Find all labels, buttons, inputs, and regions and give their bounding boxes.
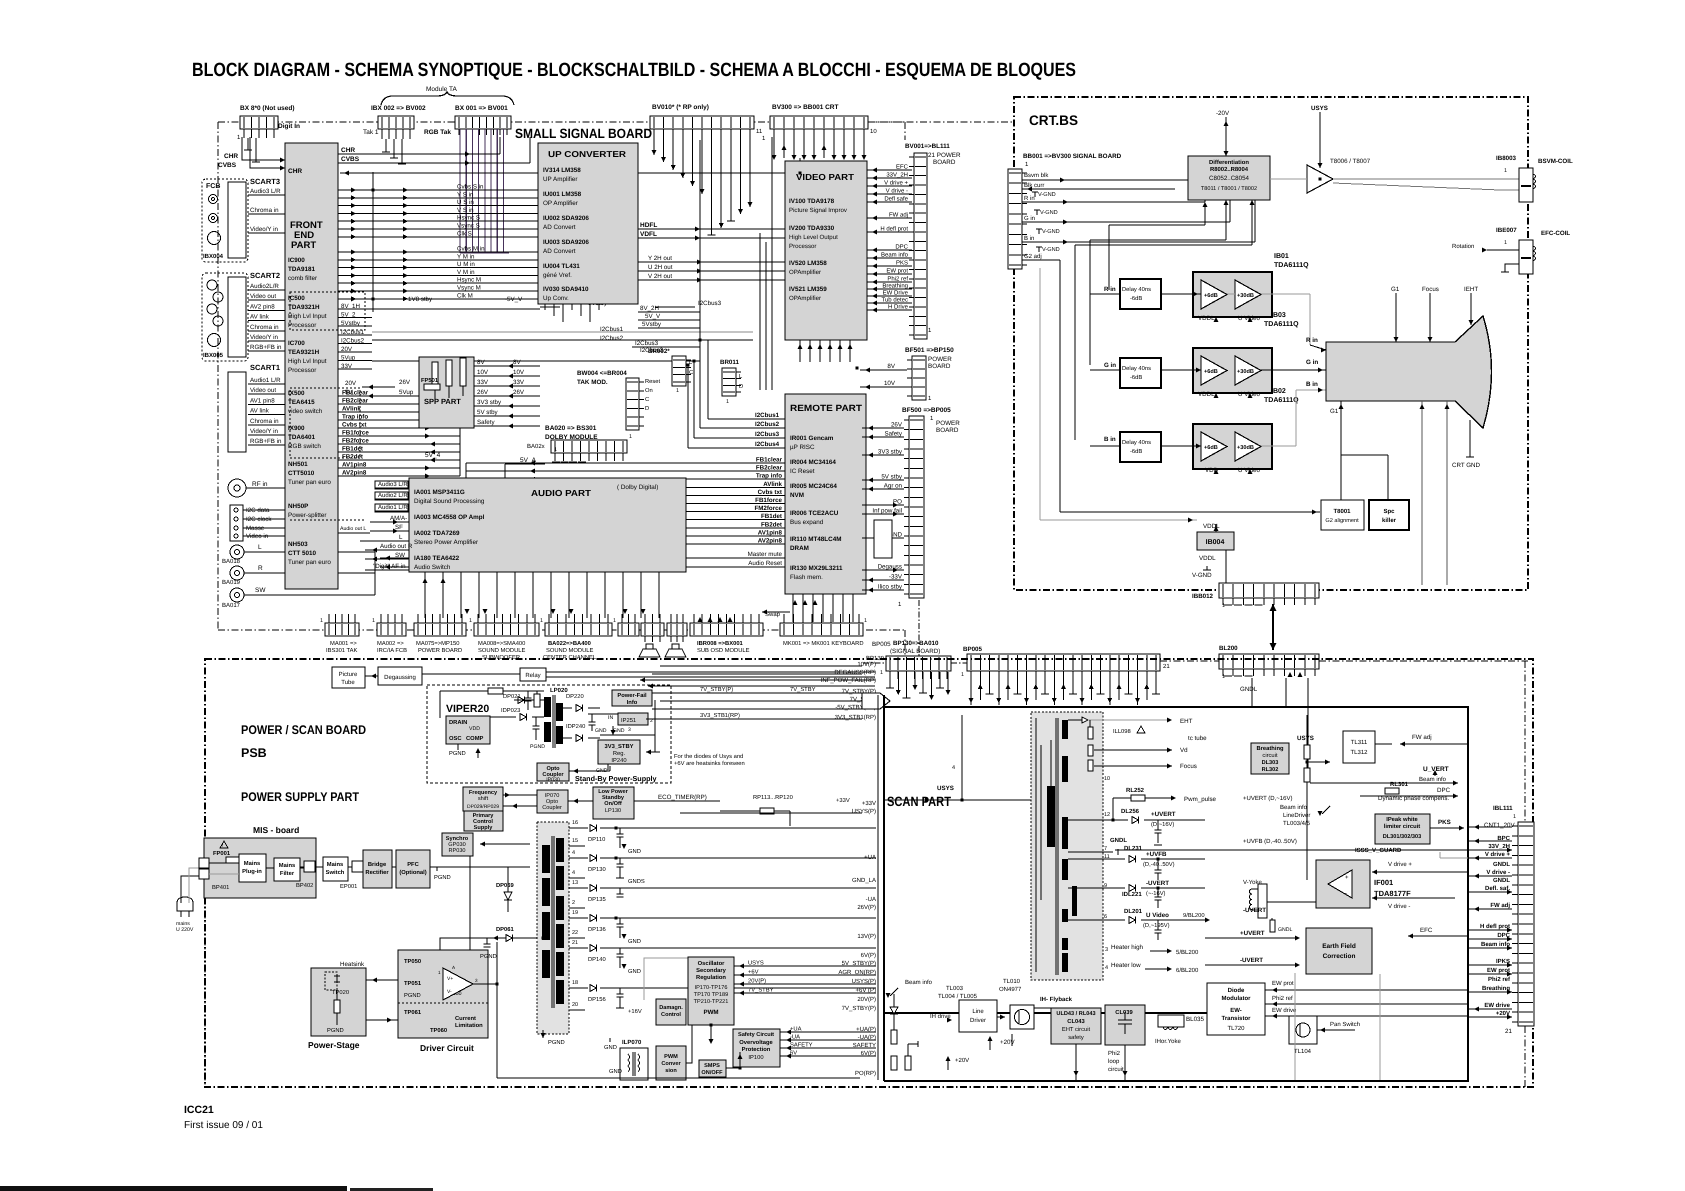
block Power-Stage xyxy=(308,961,366,1050)
svg-text:TAK MOD.: TAK MOD. xyxy=(577,379,608,386)
svg-text:TL311: TL311 xyxy=(1351,739,1368,746)
svg-text:Trap info: Trap info xyxy=(756,473,782,480)
svg-text:7V_STBY(P): 7V_STBY(P) xyxy=(700,686,733,693)
block Driver Circuit xyxy=(398,950,488,1053)
svg-text:Processor: Processor xyxy=(789,243,816,250)
svg-text:DL201: DL201 xyxy=(1124,908,1143,915)
wire V-GND under IB004 xyxy=(1192,550,1226,585)
svg-text:Heater low: Heater low xyxy=(1111,962,1141,969)
svg-text:16: 16 xyxy=(572,820,578,826)
label for the diodes note xyxy=(674,753,745,767)
transistor TL104 pan switch xyxy=(1289,1016,1360,1055)
svg-text:DP130: DP130 xyxy=(588,866,606,873)
block SMPS ON/OFF xyxy=(699,1060,726,1077)
svg-text:26V: 26V xyxy=(891,422,903,429)
IC UP CONVERTER xyxy=(538,143,638,304)
svg-text:ILP070: ILP070 xyxy=(622,1039,642,1046)
svg-text:shift: shift xyxy=(478,795,489,802)
wire vertical bus lines left of UP CONVERTER xyxy=(338,172,538,312)
svg-text:+UA: +UA xyxy=(864,854,876,861)
svg-text:1: 1 xyxy=(1222,674,1225,680)
svg-text:RGB switch: RGB switch xyxy=(288,443,321,450)
svg-text:AV1 pin8: AV1 pin8 xyxy=(250,397,275,404)
svg-text:FW adj: FW adj xyxy=(889,212,908,219)
connector MA001 => IBS301 TAK xyxy=(320,614,359,654)
svg-text:20V: 20V xyxy=(345,380,357,387)
svg-text:I2Cbus2: I2Cbus2 xyxy=(755,421,780,428)
svg-text:V-GND: V-GND xyxy=(1042,229,1060,235)
svg-text:DPC: DPC xyxy=(895,244,908,251)
connector IB8003 BSVM coil xyxy=(1496,155,1573,202)
svg-text:IBX 002 => BV002: IBX 002 => BV002 xyxy=(371,105,426,112)
svg-text:IV314 LM358: IV314 LM358 xyxy=(543,167,581,174)
svg-text:CRT GND: CRT GND xyxy=(1452,462,1480,469)
svg-text:TDA6401: TDA6401 xyxy=(288,434,315,441)
svg-text:8V_2H: 8V_2H xyxy=(640,305,659,312)
svg-text:21: 21 xyxy=(1163,663,1170,670)
svg-text:SMALL SIGNAL BOARD: SMALL SIGNAL BOARD xyxy=(515,126,652,141)
svg-text:DPC: DPC xyxy=(1437,787,1451,794)
block Relay xyxy=(422,668,875,681)
svg-text:µP RISC: µP RISC xyxy=(790,444,815,451)
svg-text:EHT: EHT xyxy=(1180,718,1193,725)
wires standby rails to label column xyxy=(646,666,862,736)
svg-text:Clk S: Clk S xyxy=(457,230,472,237)
svg-text:PO(RP): PO(RP) xyxy=(855,1070,876,1077)
svg-text:VDFL: VDFL xyxy=(640,231,657,238)
block EHT circuit safety xyxy=(1051,1008,1101,1044)
svg-text:Pwm_pulse: Pwm_pulse xyxy=(1184,796,1217,803)
svg-text:SCART2: SCART2 xyxy=(250,271,280,280)
svg-text:RGB Tak: RGB Tak xyxy=(424,129,451,136)
block delay B xyxy=(1090,432,1161,462)
svg-text:PSB: PSB xyxy=(241,746,267,760)
labels power outputs right column bottom xyxy=(838,800,876,1077)
connector reset/on xyxy=(626,378,661,440)
svg-text:+UA(P): +UA(P) xyxy=(856,1026,876,1033)
block TL311 TL312 xyxy=(1343,731,1468,763)
wire R in xyxy=(1022,163,1209,205)
svg-text:On: On xyxy=(645,387,653,394)
block Low Power Standby On/Off LP130 xyxy=(568,787,720,819)
svg-text:OPAmplifier: OPAmplifier xyxy=(789,269,821,276)
svg-text:Limitation: Limitation xyxy=(455,1022,483,1029)
svg-text:Degauss: Degauss xyxy=(878,564,902,571)
svg-text:IBX005: IBX005 xyxy=(203,352,224,359)
label SCART1 rows xyxy=(248,377,288,445)
svg-text:(D,-40..50V): (D,-40..50V) xyxy=(1143,861,1175,868)
svg-text:Heatsink: Heatsink xyxy=(340,961,365,968)
wire EHT output xyxy=(1068,717,1207,782)
svg-text:V M in: V M in xyxy=(457,269,475,276)
svg-text:10V: 10V xyxy=(513,369,525,376)
op-amp IB03 TDA6111Q xyxy=(1193,348,1272,393)
svg-text:IBB012: IBB012 xyxy=(1192,593,1214,600)
svg-text:6V(P): 6V(P) xyxy=(861,952,876,959)
V yoke symbol xyxy=(1249,884,1316,933)
svg-text:CNT1_20V: CNT1_20V xyxy=(1484,822,1515,829)
speaker icon 2 xyxy=(665,644,686,657)
label BB001=>BV300 SIGNAL BOARD xyxy=(1023,153,1122,168)
svg-text:Chroma in: Chroma in xyxy=(250,207,279,214)
block IB004 xyxy=(1197,532,1234,550)
svg-text:6V(P): 6V(P) xyxy=(861,1050,876,1057)
svg-text:RL302: RL302 xyxy=(1262,767,1279,773)
svg-text:OSC: OSC xyxy=(449,735,462,742)
svg-text:Info: Info xyxy=(627,699,638,706)
op-amp IF001 TDA8177F xyxy=(1316,860,1411,908)
svg-text:Earth Field: Earth Field xyxy=(1322,943,1356,950)
svg-text:NH50P: NH50P xyxy=(288,503,308,510)
mains plug icon xyxy=(176,897,194,933)
label BW004 <=BR004 TAK MOD xyxy=(577,370,627,386)
wire USYS into scan part xyxy=(884,715,1035,803)
svg-text:PWM: PWM xyxy=(664,1054,678,1060)
svg-text:tc tube: tc tube xyxy=(1188,735,1207,742)
svg-text:1: 1 xyxy=(1504,240,1507,246)
svg-text:+6V: +6V xyxy=(748,969,759,976)
svg-text:CENTER CHANNEL: CENTER CHANNEL xyxy=(543,654,597,661)
svg-text:FB1det: FB1det xyxy=(342,446,363,453)
transformer LP070 xyxy=(620,1039,648,1080)
svg-text:I2Cbus2: I2Cbus2 xyxy=(600,335,624,342)
svg-text:1: 1 xyxy=(469,618,472,624)
svg-text:RL252: RL252 xyxy=(1126,787,1145,794)
svg-text:21: 21 xyxy=(572,940,578,946)
block Mains Filter xyxy=(274,858,313,889)
wire bus S signals to UP CONVERTER xyxy=(338,184,538,240)
svg-text:FP001: FP001 xyxy=(213,850,231,857)
svg-text:SUB OSD MODULE: SUB OSD MODULE xyxy=(697,647,750,654)
svg-text:IB004: IB004 xyxy=(1206,539,1225,546)
svg-text:-UA: -UA xyxy=(790,1035,800,1041)
connector BF500 => BP005 xyxy=(898,407,960,608)
svg-text:FW adj: FW adj xyxy=(1490,902,1510,909)
svg-text:BOARD: BOARD xyxy=(933,159,956,166)
svg-text:Processor: Processor xyxy=(288,322,316,329)
wire G in xyxy=(1022,168,1230,225)
svg-text:For the diodes of Usys and: For the diodes of Usys and xyxy=(674,753,743,760)
svg-text:Oscillator: Oscillator xyxy=(698,960,725,967)
op-amp IB01 TDA6111Q xyxy=(1193,253,1309,317)
wires driver to power stage xyxy=(366,938,543,1023)
svg-text:Vsync M: Vsync M xyxy=(457,285,481,292)
svg-text:TP020: TP020 xyxy=(332,989,349,996)
svg-text:Vsync S: Vsync S xyxy=(457,223,480,230)
svg-text:Phi2: Phi2 xyxy=(1108,1050,1121,1057)
svg-text:GND_LA: GND_LA xyxy=(852,877,876,884)
svg-text:DL231: DL231 xyxy=(1124,845,1143,852)
svg-text:CRT.BS: CRT.BS xyxy=(1029,113,1078,128)
block Power-Fail Info xyxy=(612,690,652,706)
svg-text:Conver: Conver xyxy=(661,1061,681,1067)
svg-text:Reg.: Reg. xyxy=(613,751,626,757)
svg-text:FP501: FP501 xyxy=(421,377,439,384)
svg-text:I2Cbus3: I2Cbus3 xyxy=(635,340,659,347)
svg-text:Audio out L: Audio out L xyxy=(340,526,366,532)
block SPP PART xyxy=(419,357,474,428)
svg-text:Reset: Reset xyxy=(645,379,661,385)
wires diode modulator rows xyxy=(1265,980,1468,1019)
svg-text:TP210-TP221: TP210-TP221 xyxy=(694,999,729,1005)
svg-text:MA001 =>: MA001 => xyxy=(330,640,357,647)
svg-text:PGND: PGND xyxy=(530,744,545,750)
svg-text:V-: V- xyxy=(447,989,452,995)
wires anode feeds from below xyxy=(1419,401,1449,585)
svg-text:MA008=>SMA400: MA008=>SMA400 xyxy=(478,640,525,647)
svg-text:(Optional): (Optional) xyxy=(399,869,426,876)
svg-text:FB2det: FB2det xyxy=(342,454,363,461)
block PWM Conversion xyxy=(656,1046,686,1080)
wire Heater high/low xyxy=(1105,944,1199,974)
wires left feeds to BL111 area xyxy=(1115,850,1468,876)
transistor T8006 / T8007 buffer xyxy=(1307,158,1371,193)
svg-text:IBE007: IBE007 xyxy=(1496,227,1517,234)
svg-text:V drive +: V drive + xyxy=(884,180,908,187)
svg-text:H defl prot: H defl prot xyxy=(1480,923,1510,930)
svg-text:IA003 MC4558 OP Ampl: IA003 MC4558 OP Ampl xyxy=(414,514,485,521)
svg-text:Stereo Power Amplifier: Stereo Power Amplifier xyxy=(414,539,478,546)
svg-text:+UVERT: +UVERT xyxy=(1151,811,1176,818)
svg-text:BL035: BL035 xyxy=(1186,1016,1204,1023)
connector MA008 SOUND MODULE SUBWOOFER xyxy=(469,614,539,661)
svg-text:Chroma in: Chroma in xyxy=(250,324,279,331)
svg-text:-UVERT: -UVERT xyxy=(1146,880,1169,887)
svg-text:BX 001 => BV001: BX 001 => BV001 xyxy=(455,105,508,112)
svg-text:FB1clear: FB1clear xyxy=(756,457,783,464)
IC FRONT END PART xyxy=(285,143,365,589)
svg-text:IBL111: IBL111 xyxy=(1493,805,1513,812)
svg-text:DP156: DP156 xyxy=(588,996,606,1003)
svg-text:AVlink: AVlink xyxy=(342,406,361,413)
block Phi2 loop circuit CL039 xyxy=(1105,1005,1145,1073)
svg-text:!: ! xyxy=(222,843,223,848)
svg-text:TL003/4/5: TL003/4/5 xyxy=(1283,820,1311,827)
wire I2C bus horizontals xyxy=(345,300,753,399)
connector MA002 FCB xyxy=(372,614,407,654)
svg-text:GND: GND xyxy=(628,938,641,945)
connector small speaker mid xyxy=(641,614,664,642)
wire Bsvm blk to Differentiation xyxy=(1022,177,1188,182)
wire +20V label scan xyxy=(945,1056,969,1070)
svg-text:Mains: Mains xyxy=(244,860,260,867)
svg-text:TDA6111Q: TDA6111Q xyxy=(1274,262,1309,269)
svg-text:video switch: video switch xyxy=(288,408,323,415)
svg-text:2: 2 xyxy=(572,900,575,906)
labels BB001 rows xyxy=(1024,172,1060,260)
svg-text:POWER: POWER xyxy=(928,356,952,363)
svg-text:7V_STBY: 7V_STBY xyxy=(790,686,816,693)
svg-text:IU003 SDA9206: IU003 SDA9206 xyxy=(543,239,589,246)
svg-text:GNDL: GNDL xyxy=(1110,837,1127,844)
svg-text:Tuner pan euro: Tuner pan euro xyxy=(288,559,331,566)
svg-text:Beam info: Beam info xyxy=(905,979,933,986)
svg-text:13V(P): 13V(P) xyxy=(857,933,876,940)
svg-text:Video/Y in: Video/Y in xyxy=(250,428,279,435)
svg-text:Audio2 L/R: Audio2 L/R xyxy=(378,492,408,499)
svg-text:GNDL: GNDL xyxy=(1240,686,1258,693)
wire +UVFB row xyxy=(1068,845,1205,880)
speaker icon 1 xyxy=(639,644,660,657)
block Bridge Rectifier xyxy=(363,850,392,888)
svg-text:FB2det: FB2det xyxy=(761,521,782,528)
svg-text:Breathing: Breathing xyxy=(882,283,908,290)
svg-text:Tube: Tube xyxy=(341,679,355,686)
svg-text:Inf pow fail: Inf pow fail xyxy=(872,508,902,515)
label SCART2 rows xyxy=(248,283,288,351)
svg-text:BA018: BA018 xyxy=(222,558,241,565)
resistor near LP020 xyxy=(440,688,544,718)
svg-text:5V stby: 5V stby xyxy=(477,409,499,416)
svg-text:SCART3: SCART3 xyxy=(250,177,280,186)
svg-text:Damagn.: Damagn. xyxy=(659,1005,683,1011)
svg-text:BA017: BA017 xyxy=(222,602,241,609)
svg-text:V 2H out: V 2H out xyxy=(648,273,672,280)
secondary rows with diodes xyxy=(569,820,680,1015)
wire dash from keyboard to BP130 xyxy=(905,600,919,656)
svg-text:9/BL200: 9/BL200 xyxy=(1183,912,1205,919)
svg-text:IR130 MX29L3211: IR130 MX29L3211 xyxy=(790,565,843,572)
svg-text:ON4977: ON4977 xyxy=(999,986,1022,993)
svg-text:IBX004: IBX004 xyxy=(203,253,224,260)
svg-text:AV2pin8: AV2pin8 xyxy=(758,538,783,545)
svg-text:33V: 33V xyxy=(477,379,489,386)
svg-text:1: 1 xyxy=(540,618,543,624)
svg-text:Driver Circuit: Driver Circuit xyxy=(420,1043,474,1053)
svg-text:AV1pin8: AV1pin8 xyxy=(758,529,783,536)
svg-text:AV2 pin8: AV2 pin8 xyxy=(250,303,275,310)
connector BF501 => BP150 xyxy=(905,347,954,402)
svg-text:Mains: Mains xyxy=(327,861,343,868)
svg-text:Beam info: Beam info xyxy=(1481,941,1510,948)
wire 7V_STBY big arrow xyxy=(862,693,890,709)
svg-text:USYS(P): USYS(P) xyxy=(852,808,876,815)
svg-text:ECO_TIMER(RP): ECO_TIMER(RP) xyxy=(658,794,707,801)
svg-text:CL039: CL039 xyxy=(1115,1009,1133,1016)
block scan part outline (thick) xyxy=(878,695,1468,1081)
svg-text:Modulator: Modulator xyxy=(1222,995,1252,1002)
svg-text:G2 alignment: G2 alignment xyxy=(1325,517,1359,524)
connector BA019 R xyxy=(222,565,375,586)
connector IBE007 EFC coil xyxy=(1452,227,1570,274)
transistor TL010 xyxy=(997,978,1034,1029)
svg-text:POWER BOARD: POWER BOARD xyxy=(418,647,462,654)
svg-text:USYS: USYS xyxy=(748,960,764,967)
svg-text:SUBWOOFER: SUBWOOFER xyxy=(482,654,520,661)
svg-text:GND: GND xyxy=(609,1068,622,1075)
svg-text:BF500 =>BP005: BF500 =>BP005 xyxy=(902,407,951,414)
svg-text:Delay 40ns: Delay 40ns xyxy=(1122,439,1151,446)
wire SPP outputs 8V..Safety xyxy=(474,359,540,429)
svg-text:AD Convert: AD Convert xyxy=(543,224,576,231)
svg-text:FB1force: FB1force xyxy=(755,497,782,504)
diode DP220 xyxy=(563,693,600,711)
svg-text:DP029/RP029: DP029/RP029 xyxy=(467,804,499,810)
svg-text:Video out: Video out xyxy=(250,387,276,394)
svg-text:IA002 TDA7269: IA002 TDA7269 xyxy=(414,530,460,537)
block Opto Coupler IP030 xyxy=(537,763,610,783)
svg-text:Plug-in: Plug-in xyxy=(242,868,262,875)
svg-text:T8001: T8001 xyxy=(1333,508,1351,515)
block Differentiation xyxy=(1188,156,1270,200)
svg-text:V-GND: V-GND xyxy=(1192,572,1212,579)
wire dash-dot right border through BL111 xyxy=(1524,661,1526,1087)
svg-text:TL720: TL720 xyxy=(1227,1025,1245,1032)
svg-text:1: 1 xyxy=(372,618,375,624)
svg-text:IP251: IP251 xyxy=(621,717,636,724)
svg-text:Breathing: Breathing xyxy=(1256,745,1284,752)
board border POWER/SCAN BOARD (dash-dot) xyxy=(205,659,1533,1087)
svg-text:Primary: Primary xyxy=(473,812,495,819)
svg-text:CL043: CL043 xyxy=(1067,1018,1085,1025)
svg-text:BX 8*0 (Not used): BX 8*0 (Not used) xyxy=(240,105,295,112)
svg-text:DL256: DL256 xyxy=(1121,808,1140,815)
svg-text:G1: G1 xyxy=(1391,286,1400,293)
wire VDDL U Video IB01 xyxy=(1198,312,1299,328)
svg-text:Dynamic phase compens.: Dynamic phase compens. xyxy=(1378,795,1449,802)
svg-text:Trap info: Trap info xyxy=(342,414,368,421)
svg-text:15: 15 xyxy=(572,838,578,844)
wire R G B in to CRT labels xyxy=(1306,337,1326,388)
svg-text:BV300 => BB001 CRT: BV300 => BB001 CRT xyxy=(772,104,839,111)
svg-text:Protection: Protection xyxy=(742,1046,771,1053)
svg-text:-UA(P): -UA(P) xyxy=(858,1034,876,1041)
svg-text:Pan Switch: Pan Switch xyxy=(1330,1021,1360,1028)
svg-text:1: 1 xyxy=(676,388,679,394)
svg-text:PGND: PGND xyxy=(449,750,466,757)
svg-text:IB03: IB03 xyxy=(1271,312,1286,319)
svg-text:REMOTE PART: REMOTE PART xyxy=(790,403,863,413)
svg-text:TP050: TP050 xyxy=(404,958,421,965)
svg-text:FB1clear: FB1clear xyxy=(342,390,369,397)
svg-text:Control: Control xyxy=(473,818,493,825)
svg-text:+: + xyxy=(1345,875,1349,881)
block Spc killer xyxy=(1369,500,1409,530)
wires REMOTE PART bottom pins xyxy=(762,594,853,622)
svg-text:Up Conv.: Up Conv. xyxy=(543,295,569,302)
svg-text:V+: V+ xyxy=(447,976,453,982)
svg-text:G in: G in xyxy=(1104,362,1116,369)
svg-text:High Lvl Input: High Lvl Input xyxy=(288,313,327,320)
connector BV001=>BL111 xyxy=(905,143,961,339)
wires UVERT to earth field xyxy=(1205,907,1300,968)
connector BR002 xyxy=(648,348,693,394)
svg-text:CHR: CHR xyxy=(341,147,355,154)
wire I2Cbus labels at REMOTE PART xyxy=(688,307,785,448)
svg-text:26V: 26V xyxy=(399,379,411,386)
svg-text:SAFETY: SAFETY xyxy=(853,1042,876,1049)
svg-text:GNDL: GNDL xyxy=(1493,861,1510,868)
connector small speaker right xyxy=(667,614,687,642)
svg-text:Audio1 L/R: Audio1 L/R xyxy=(378,504,408,511)
svg-text:10V(P): 10V(P) xyxy=(857,661,876,668)
wire board left edge dash xyxy=(204,898,206,1085)
svg-text:10V: 10V xyxy=(477,369,489,376)
svg-text:Processor: Processor xyxy=(288,367,316,374)
svg-text:BOARD: BOARD xyxy=(928,363,951,370)
diode DP021 xyxy=(503,693,544,703)
svg-text:DP061: DP061 xyxy=(496,926,515,933)
svg-text:UP CONVERTER: UP CONVERTER xyxy=(548,149,627,159)
svg-text:TL312: TL312 xyxy=(1350,749,1368,756)
svg-text:+UVFB (D,-40..50V): +UVFB (D,-40..50V) xyxy=(1243,838,1297,845)
svg-text:Hsync S: Hsync S xyxy=(457,215,480,222)
wire +UVERT row xyxy=(1068,808,1205,845)
IC VIDEO PART xyxy=(785,161,867,340)
connector BX001 => BV001 xyxy=(424,105,511,136)
svg-text:V S in: V S in xyxy=(457,207,474,214)
svg-text:Delay 40ns: Delay 40ns xyxy=(1122,365,1151,372)
